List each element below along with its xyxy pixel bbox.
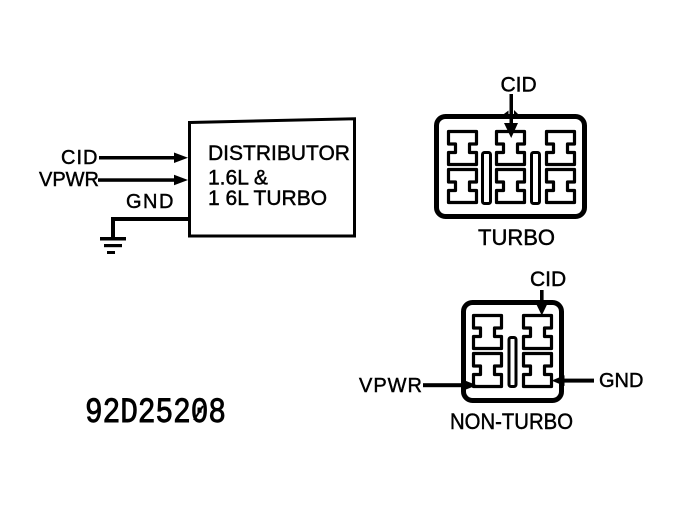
wire GND from distributor to ground xyxy=(111,217,190,238)
turbo connector body J1 xyxy=(437,117,585,217)
turbo pin row1 col2 (CID) xyxy=(497,132,525,165)
turbo pin row1 col3 xyxy=(547,132,575,165)
svg-text:VPWR: VPWR xyxy=(39,169,99,191)
svg-text:DISTRIBUTOR: DISTRIBUTOR xyxy=(208,142,350,165)
non-turbo pin row1 col1 xyxy=(474,316,502,349)
wire VPWR into non-turbo with arrowhead xyxy=(423,380,477,391)
turbo pin row2 col3 xyxy=(547,170,575,203)
part number 92D25208 xyxy=(85,392,226,433)
non-turbo keyway slot center xyxy=(509,338,516,387)
ground symbol xyxy=(100,237,126,254)
distributor box U1 xyxy=(190,119,355,236)
non-turbo connector body J2 xyxy=(464,303,562,401)
svg-text:92D25208: 92D25208 xyxy=(85,392,226,433)
svg-text:CID: CID xyxy=(530,268,566,291)
svg-text:CID: CID xyxy=(501,74,537,97)
non-turbo pin row2 col2 (GND) xyxy=(524,354,552,387)
turbo pin row2 col2 xyxy=(497,170,525,203)
svg-text:GND: GND xyxy=(126,191,175,213)
non-turbo pin row2 col1 (VPWR) xyxy=(474,354,502,387)
wire CID into non-turbo connector with arrowhead xyxy=(535,290,549,316)
svg-text:CID: CID xyxy=(61,147,98,169)
wire CID into turbo connector with arrowhead xyxy=(498,94,523,138)
turbo pin row1 col1 xyxy=(449,132,477,165)
turbo pin row2 col1 xyxy=(449,170,477,203)
svg-text:1 6L TURBO: 1 6L TURBO xyxy=(208,187,327,210)
svg-text:VPWR: VPWR xyxy=(359,375,423,397)
wire GND into non-turbo with arrowhead xyxy=(552,375,595,386)
turbo keyway slot right xyxy=(532,153,540,204)
turbo keyway slot left xyxy=(483,153,491,204)
svg-text:NON-TURBO: NON-TURBO xyxy=(450,409,573,434)
label DISTRIBUTOR 1.6L & 1 6L TURBO xyxy=(208,142,350,210)
wire VPWR input with arrowhead into distributor xyxy=(98,175,188,186)
svg-text:GND: GND xyxy=(599,370,643,392)
wire CID input with arrowhead into distributor xyxy=(99,153,188,164)
non-turbo pin row1 col2 (CID) xyxy=(524,316,552,349)
svg-text:TURBO: TURBO xyxy=(478,225,555,250)
